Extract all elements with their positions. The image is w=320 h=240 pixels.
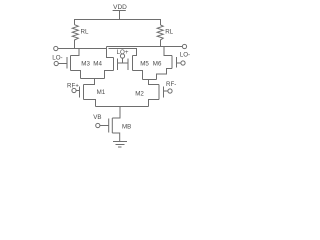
transistor M5 [128, 56, 143, 80]
transistor MB [109, 118, 120, 142]
left output rail wire [58, 48, 106, 50]
MB gate lead wire [100, 125, 109, 127]
M6 gate lead wire [177, 62, 182, 64]
M4 M5 gate tie wire [118, 62, 129, 64]
svg-text:M6: M6 [153, 61, 162, 68]
resistor RL right [157, 25, 163, 47]
transistor M2 [149, 85, 164, 107]
svg-text:LO-: LO- [52, 54, 62, 61]
M2 gate lead wire [164, 90, 168, 92]
left quad tap wire to M1 drain [84, 79, 95, 85]
transistor M4 [105, 47, 118, 79]
M3 gate lead wire [58, 63, 67, 65]
resistor RL left [72, 25, 78, 49]
LO- right input terminal [181, 61, 185, 65]
VDD power bar [113, 10, 126, 12]
RF+ input terminal [72, 88, 76, 92]
svg-text:RF-: RF- [166, 81, 176, 88]
svg-text:VB: VB [93, 114, 101, 121]
VB input terminal [96, 123, 100, 127]
left output terminal [54, 46, 58, 50]
LO+ input terminal [120, 54, 124, 58]
transistor M6 [157, 47, 177, 80]
svg-text:M4: M4 [93, 61, 102, 68]
left quad source join wire [81, 78, 105, 80]
LO+ stem wire [122, 58, 124, 63]
svg-text:RL: RL [165, 29, 173, 36]
tail tap wire to MB drain [112, 107, 120, 119]
svg-text:VDD: VDD [113, 4, 127, 11]
VDD stub wire [119, 11, 121, 20]
svg-text:M5: M5 [140, 61, 149, 68]
svg-text:LO+: LO+ [117, 49, 129, 56]
M1 gate lead wire [76, 90, 79, 92]
transistor M3 [67, 49, 81, 79]
left output rail wire after crossover gap [109, 49, 137, 56]
right output upper wire [107, 46, 183, 48]
svg-text:M1: M1 [97, 89, 106, 96]
svg-text:RL: RL [81, 29, 89, 36]
transistor M1 [80, 85, 96, 107]
LO- left input terminal [54, 61, 58, 65]
RF- input terminal [168, 89, 172, 93]
right quad tap wire to M2 drain [149, 80, 160, 85]
svg-text:LO-: LO- [180, 51, 190, 58]
right quad source join wire [143, 79, 157, 81]
tail source bus wire [96, 106, 149, 108]
svg-text:M3: M3 [81, 61, 90, 68]
svg-text:M2: M2 [135, 91, 144, 98]
svg-text:MB: MB [122, 124, 131, 131]
right output terminal [182, 44, 186, 48]
top supply rail wire [75, 20, 161, 26]
ground [113, 142, 127, 148]
